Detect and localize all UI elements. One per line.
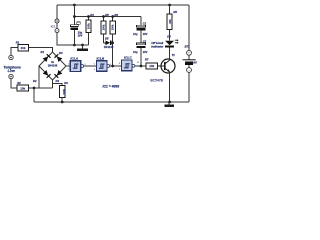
svg-text:R2: R2 — [17, 81, 21, 85]
resistor R3 vertical — [59, 86, 65, 102]
svg-text:100k: 100k — [86, 23, 90, 29]
diode D2 — [43, 70, 49, 76]
node dot rail left end — [33, 87, 36, 90]
svg-text:D2: D2 — [33, 79, 37, 83]
svg-text:100k: 100k — [111, 24, 115, 30]
node dot wire B at R5 — [102, 15, 105, 18]
wire bottom ground rail — [34, 101, 189, 103]
svg-text:D1: D1 — [41, 50, 45, 54]
svg-text:16V: 16V — [143, 50, 148, 54]
wire top supply rail — [57, 4, 189, 6]
wire bridge left corner to R2 line — [38, 66, 40, 88]
wire battery minus down to bottom rail — [188, 72, 190, 102]
transistor T1 — [161, 59, 175, 73]
svg-text:D3: D3 — [56, 79, 60, 83]
svg-text:IC1.C: IC1.C — [124, 56, 133, 60]
node dot wire B at R4 — [87, 15, 90, 18]
svg-text:10k: 10k — [149, 64, 154, 68]
wire emitter down to rail — [169, 72, 171, 102]
svg-text:9: 9 — [119, 69, 121, 71]
svg-text:R6: R6 — [114, 13, 118, 17]
svg-text:6: 6 — [94, 69, 96, 71]
svg-text:IC1: IC1 — [51, 24, 56, 28]
ground symbol left — [77, 45, 88, 51]
svg-text:16V: 16V — [143, 32, 148, 36]
svg-text:16V: 16V — [78, 34, 83, 38]
svg-text:10µ: 10µ — [133, 50, 138, 54]
svg-text:1N4148: 1N4148 — [104, 45, 114, 49]
svg-text:8: 8 — [119, 63, 121, 65]
svg-text:R4: R4 — [90, 13, 94, 17]
node dot rail at R3 — [61, 101, 64, 104]
svg-text:R5: R5 — [105, 13, 109, 17]
telephone line terminal a — [9, 48, 18, 60]
resistor R2 — [17, 85, 53, 91]
capacitor C2 electrolytic — [137, 43, 146, 66]
wire B distribution bus — [74, 16, 141, 18]
svg-text:BC547B: BC547B — [150, 79, 163, 83]
diode D4 — [57, 56, 63, 62]
bridge rectifier D1-D4 — [39, 52, 70, 88]
svg-text:10k: 10k — [168, 19, 172, 24]
svg-text:−: − — [188, 68, 190, 72]
svg-text:10k: 10k — [20, 86, 25, 90]
svg-text:1N4148: 1N4148 — [48, 63, 58, 67]
wire rail left end up to R2 wire — [33, 88, 35, 102]
diode D1 — [43, 56, 49, 62]
diode D5 — [104, 40, 113, 45]
svg-text:D6: D6 — [167, 35, 171, 39]
resistor R1 — [18, 44, 53, 52]
svg-text:100k: 100k — [101, 24, 105, 30]
resistor R6 vertical — [110, 17, 115, 67]
svg-text:R1: R1 — [16, 40, 20, 44]
IC1 supply pin 14 — [55, 5, 59, 23]
svg-text:BT1: BT1 — [185, 44, 191, 48]
svg-text:D5: D5 — [105, 37, 109, 41]
telephone line terminal b — [9, 74, 17, 88]
capacitor C1 electrolytic — [137, 17, 146, 43]
IC1 supply pin 7 — [55, 23, 89, 45]
svg-text:IC1.B: IC1.B — [97, 57, 106, 61]
capacitor C5 electrolytic — [70, 5, 80, 45]
svg-text:IC1.A: IC1.A — [70, 57, 78, 61]
svg-text:1: 1 — [68, 64, 70, 66]
node dot ground bus at C5 — [73, 44, 76, 47]
battery BT1 — [183, 50, 196, 72]
svg-text:Line: Line — [8, 69, 15, 73]
node dot rail A at C5 column — [73, 4, 76, 7]
svg-text:10µ: 10µ — [133, 32, 138, 36]
node dot D5 cathode at R6 column — [111, 42, 114, 45]
svg-text:R8: R8 — [173, 10, 177, 14]
resistor R8 vertical top right — [167, 5, 172, 41]
resistor R7 base — [146, 63, 165, 69]
node dot wire B at R6 — [111, 15, 114, 18]
svg-text:T1: T1 — [172, 53, 176, 57]
node dot wire B at C5 column — [73, 15, 76, 18]
svg-text:9V: 9V — [193, 61, 198, 65]
ground symbol right — [164, 102, 174, 107]
svg-text:C2: C2 — [143, 39, 147, 43]
LED D6 — [165, 39, 179, 48]
gate IC1.C — [122, 60, 147, 71]
node dot ground bus at ground stub — [81, 44, 84, 47]
svg-text:10k: 10k — [20, 46, 25, 50]
svg-text:5: 5 — [94, 64, 96, 66]
wire bridge right corner to IC1.A — [66, 65, 70, 67]
resistor R4 vertical — [86, 17, 91, 46]
svg-text:100k: 100k — [62, 88, 66, 94]
resistor R5 vertical — [101, 17, 106, 43]
node dot IC1.C output at C2 column — [140, 65, 143, 68]
svg-text:10: 10 — [137, 62, 140, 64]
svg-text:2: 2 — [68, 69, 70, 71]
svg-text:R7: R7 — [145, 57, 149, 61]
svg-text:IC1 = 4093: IC1 = 4093 — [103, 84, 120, 88]
wire bridge bottom corner to R3 — [52, 80, 54, 88]
svg-text:C1: C1 — [143, 22, 147, 26]
svg-text:+: + — [188, 51, 190, 55]
node dot IC1.B output at R6 column — [111, 65, 114, 68]
gate IC1.A — [70, 61, 96, 72]
diode D3 — [57, 70, 63, 76]
node dot rail A at R8 column — [168, 4, 171, 7]
svg-text:D4: D4 — [59, 51, 63, 55]
svg-text:R3: R3 — [64, 81, 68, 85]
svg-text:Indicator: Indicator — [151, 45, 164, 49]
wire right edge down to battery plus — [188, 5, 190, 50]
gate IC1.B — [96, 61, 121, 72]
wire collector up to LED — [169, 48, 171, 60]
node dot rail at emitter — [168, 101, 171, 104]
